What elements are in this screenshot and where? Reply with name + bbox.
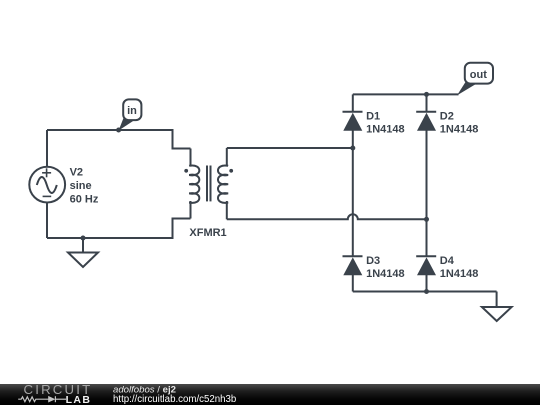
svg-text:XFMR1: XFMR1: [189, 227, 226, 239]
svg-text:1N4148: 1N4148: [440, 124, 479, 136]
svg-text:sine: sine: [70, 180, 92, 192]
svg-text:D2: D2: [440, 111, 454, 123]
svg-text:out: out: [470, 69, 487, 81]
svg-text:D1: D1: [366, 111, 380, 123]
svg-text:LAB: LAB: [66, 394, 92, 405]
svg-text:D3: D3: [366, 255, 380, 267]
svg-text:1N4148: 1N4148: [440, 268, 479, 280]
svg-text:http://circuitlab.com/c52nh3b: http://circuitlab.com/c52nh3b: [113, 394, 236, 405]
svg-text:1N4148: 1N4148: [366, 124, 405, 136]
svg-text:60 Hz: 60 Hz: [70, 194, 99, 206]
svg-text:in: in: [127, 105, 137, 117]
svg-text:D4: D4: [440, 255, 455, 267]
svg-text:1N4148: 1N4148: [366, 268, 405, 280]
svg-text:V2: V2: [70, 167, 83, 179]
